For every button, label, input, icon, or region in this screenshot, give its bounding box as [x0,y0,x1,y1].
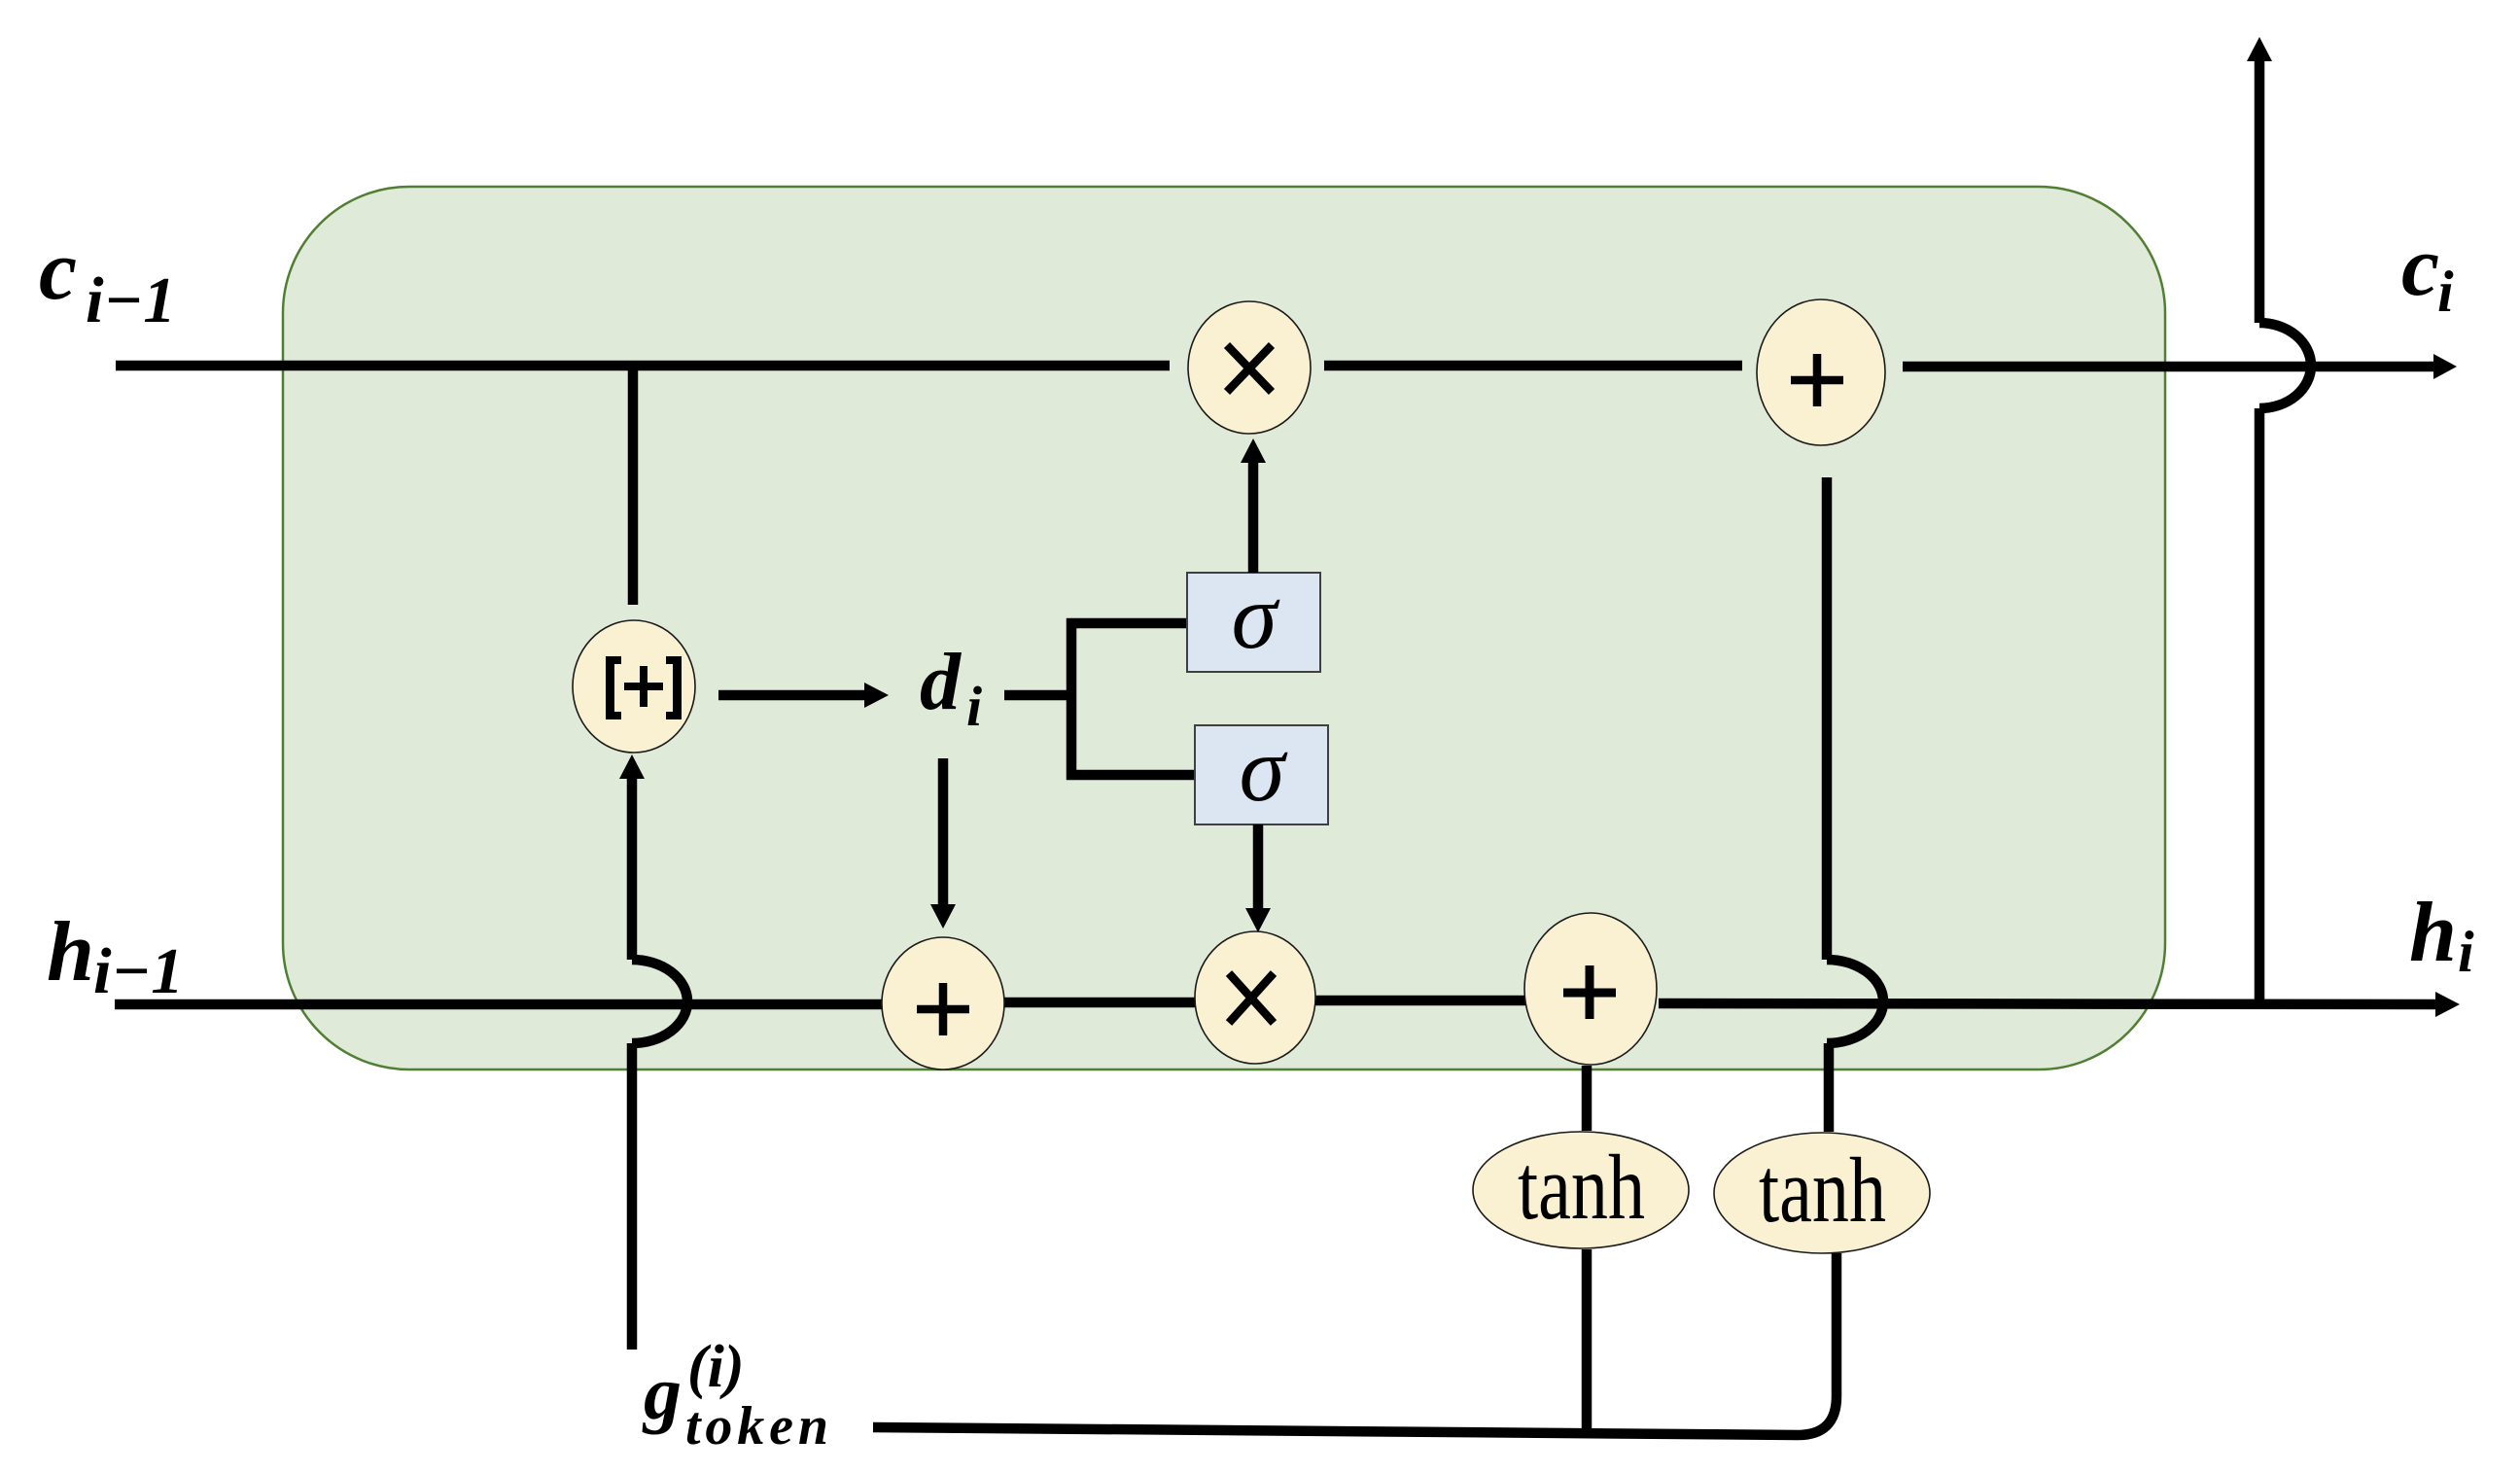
svg-text:σ: σ [1232,565,1280,668]
svg-text:token: token [685,1396,828,1456]
svg-text:tanh: tanh [1759,1139,1886,1242]
svg-text:(i): (i) [687,1334,745,1400]
svg-text:h: h [2409,886,2457,980]
svg-text:h: h [47,905,94,1000]
svg-text:i: i [966,675,982,738]
svg-text:tanh: tanh [1518,1136,1645,1239]
svg-text:d: d [920,637,962,727]
svg-text:i−1: i−1 [86,264,176,336]
svg-text:g: g [642,1350,682,1435]
svg-text:i: i [2437,260,2454,324]
svg-text:c: c [39,224,77,318]
svg-text:σ: σ [1240,718,1288,821]
svg-text:c: c [2401,220,2439,314]
svg-text:i: i [2458,920,2474,984]
svg-text:i−1: i−1 [93,935,184,1007]
